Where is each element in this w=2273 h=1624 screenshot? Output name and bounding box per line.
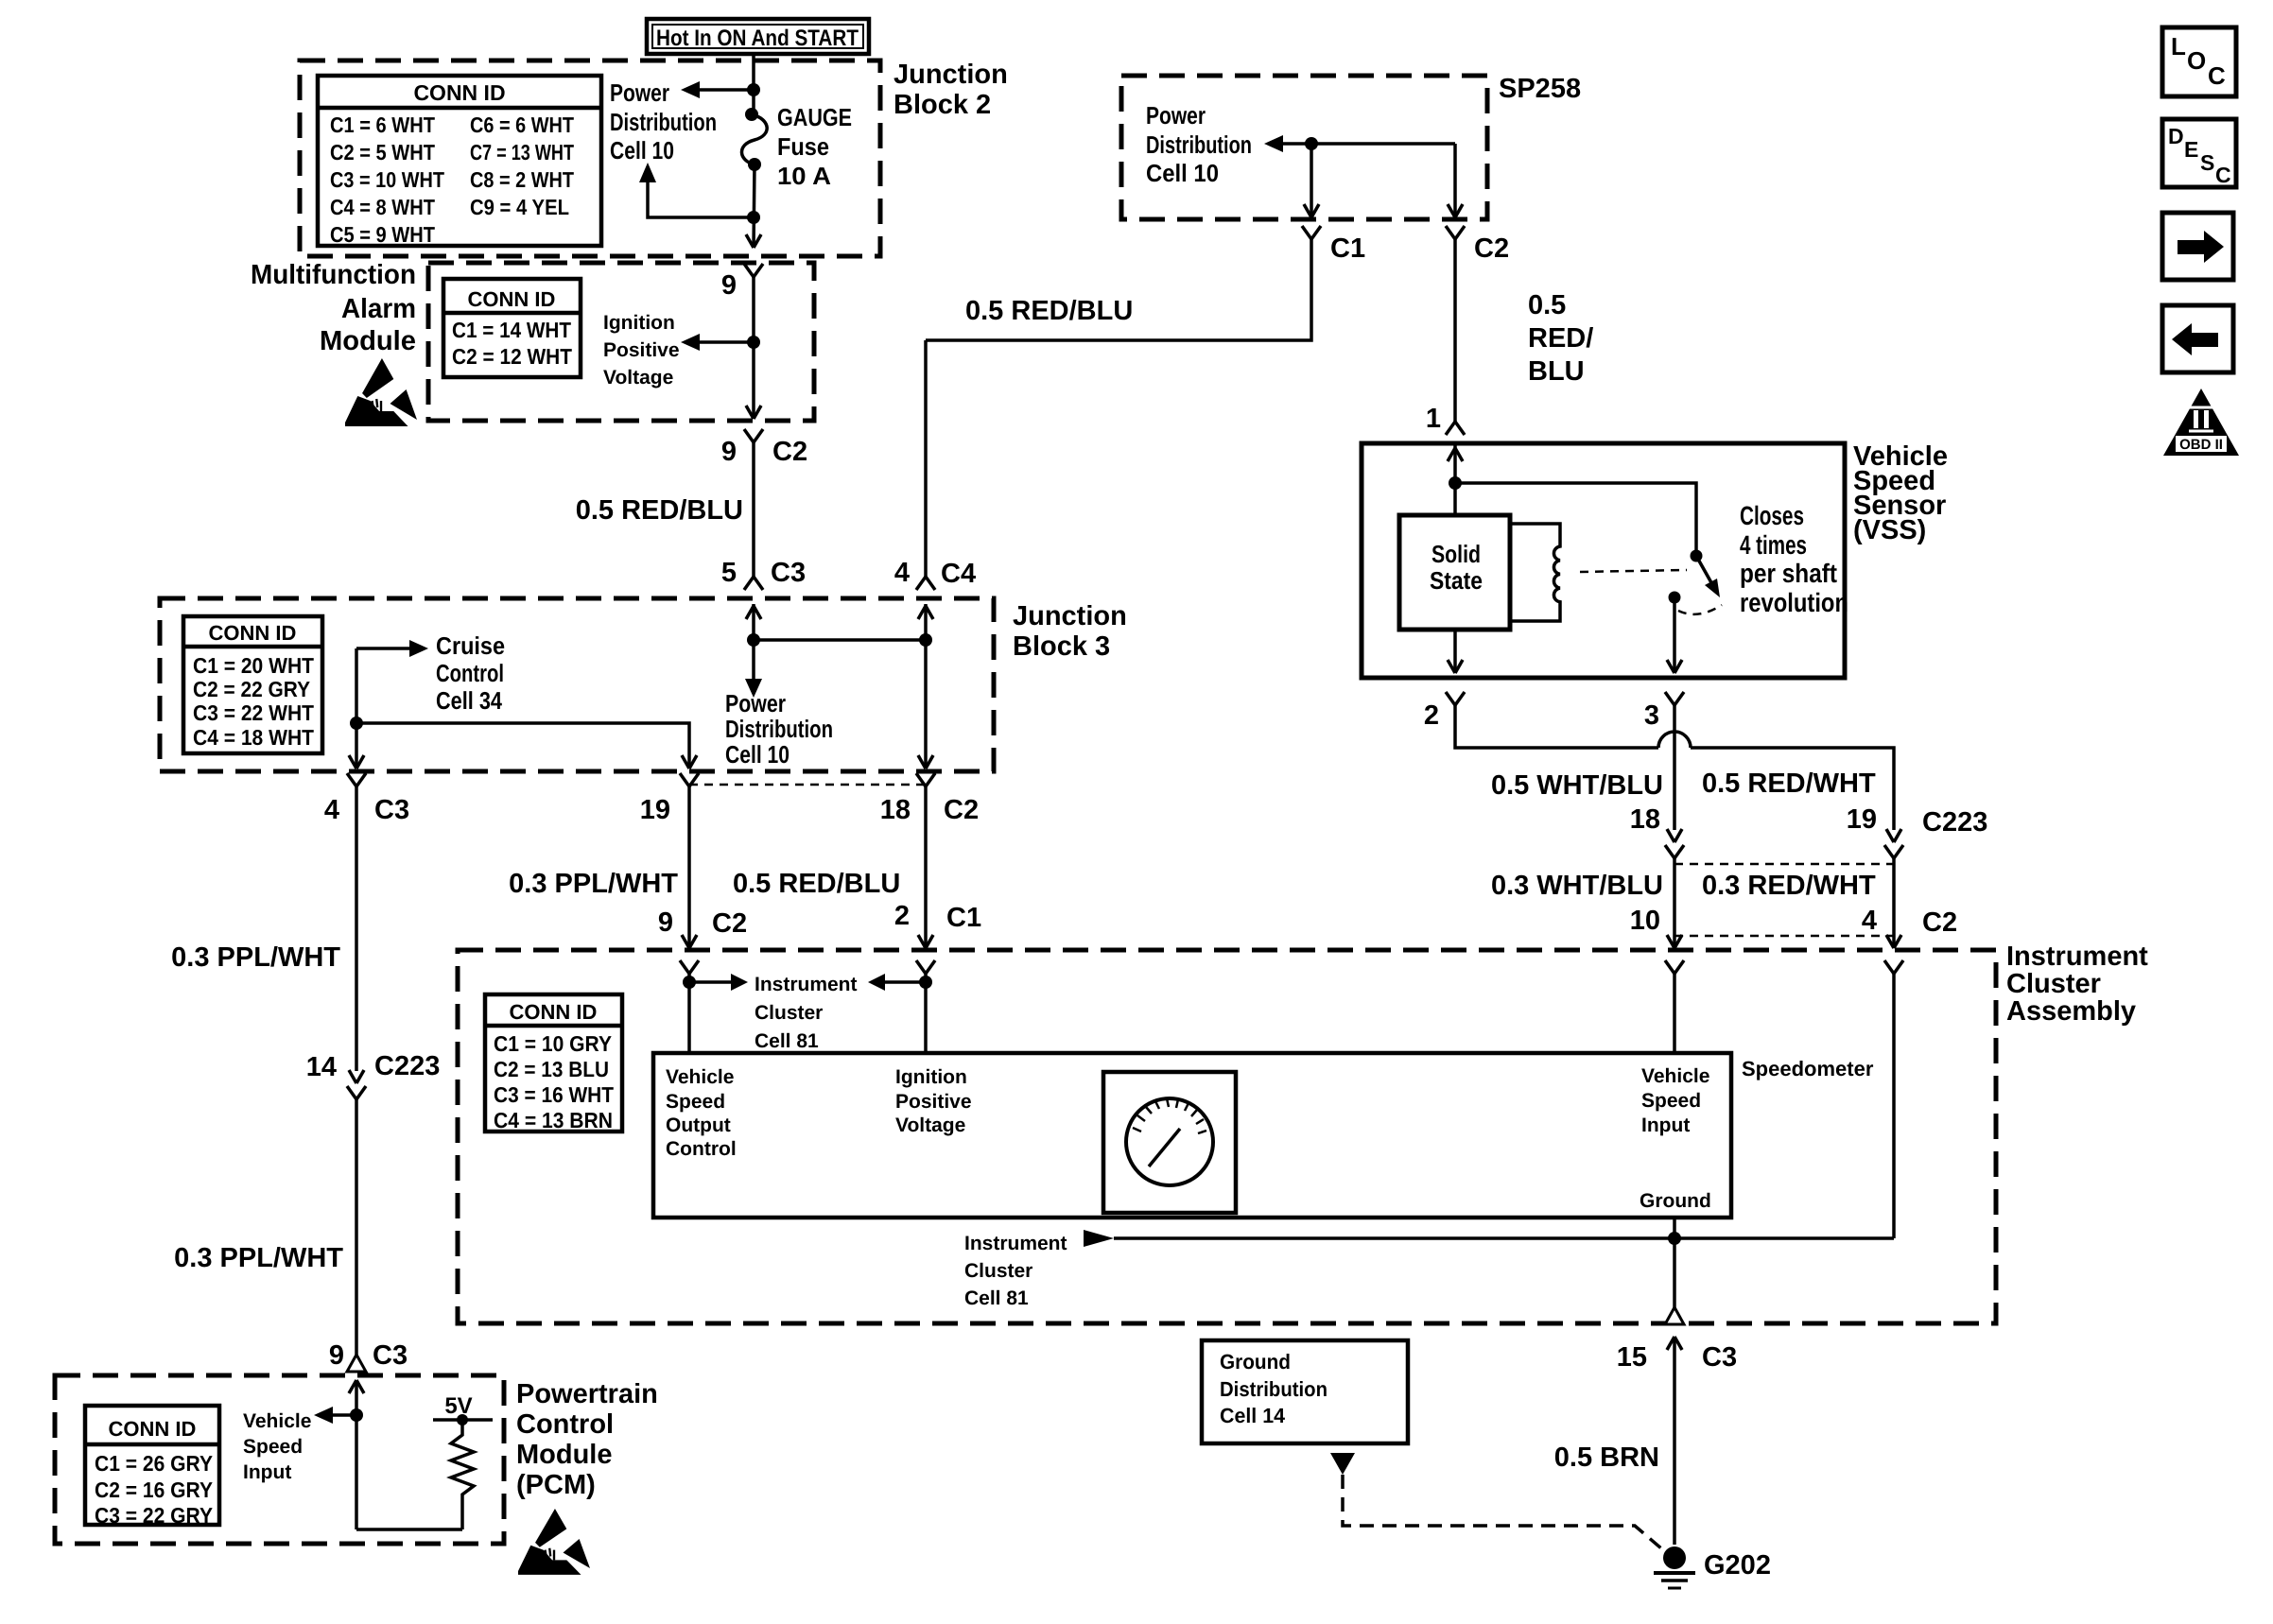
text closes 4 times per shaft revolution [1740, 501, 1848, 617]
svg-text:C223: C223 [374, 1051, 440, 1081]
ground distribution arrow [1330, 1453, 1355, 1475]
wire 19 down to IC pin 9 C2 [658, 786, 747, 948]
svg-text:Module: Module [320, 326, 416, 356]
svg-text:Instrument: Instrument [755, 974, 858, 995]
svg-text:C1 = 6 WHT: C1 = 6 WHT [330, 112, 435, 137]
svg-text:S: S [2200, 150, 2214, 175]
wire VSS pin1 internal [1448, 445, 1463, 515]
wire C1 to JB3 pin 4 C4 [926, 239, 1311, 340]
svg-text:Assembly: Assembly [2006, 996, 2136, 1027]
svg-text:0.5 RED/BLU: 0.5 RED/BLU [576, 495, 743, 526]
cell 10 feed up arrow (JB2) [639, 163, 760, 224]
solid state box [1399, 515, 1510, 630]
svg-text:0.5 BRN: 0.5 BRN [1554, 1443, 1659, 1473]
SP258 label [1499, 74, 1581, 104]
svg-text:C2: C2 [944, 795, 979, 825]
5V supply (PCM) [433, 1393, 493, 1425]
junction block 3 label [1013, 601, 1127, 662]
CONN ID table (Junction Block 3) [183, 616, 322, 753]
wire JB3 main bus [745, 604, 932, 698]
svg-text:Input: Input [243, 1461, 291, 1483]
svg-text:Cell 10: Cell 10 [1146, 159, 1219, 187]
wire label 0.3 PPL/WHT (left lower) [174, 1243, 343, 1273]
svg-text:Ground: Ground [1220, 1350, 1291, 1373]
connector 4 C3 below JB3 [324, 773, 409, 825]
instrument cluster cell 81 text (lower) [964, 1233, 1067, 1309]
wire JB3 internal cross to pin19 [356, 723, 697, 769]
forward arrow icon [2162, 213, 2233, 280]
svg-text:4: 4 [324, 795, 339, 825]
svg-text:C8 = 2 WHT: C8 = 2 WHT [470, 167, 574, 192]
wire fuse to JB2 exit [746, 164, 761, 248]
svg-text:C1: C1 [946, 903, 981, 933]
OBD II icon [2163, 389, 2239, 456]
JB3 connector gang dashed link [689, 784, 926, 786]
svg-text:C1 = 14 WHT: C1 = 14 WHT [452, 318, 571, 342]
svg-text:Power: Power [1146, 101, 1206, 130]
svg-text:C2: C2 [1922, 907, 1957, 938]
svg-text:CONN ID: CONN ID [209, 621, 297, 645]
svg-text:0.3 PPL/WHT: 0.3 PPL/WHT [174, 1243, 343, 1273]
svg-text:Junction: Junction [894, 60, 1008, 90]
wire label 0.3 RED/WHT [1702, 871, 1876, 901]
svg-text:Cruise: Cruise [436, 631, 505, 660]
ground G202 [1654, 1546, 1771, 1588]
wire label 0.3 WHT/BLU [1491, 871, 1663, 901]
svg-text:O: O [2187, 46, 2206, 75]
svg-text:Cell 81: Cell 81 [964, 1287, 1029, 1309]
svg-text:1: 1 [1426, 404, 1441, 434]
connector 15 C3 at IC bottom [1617, 1307, 1737, 1545]
svg-text:Speed: Speed [1641, 1090, 1701, 1112]
wire PCM internal [356, 1380, 462, 1529]
connector 9 C3 into PCM [329, 1340, 408, 1393]
svg-text:Control: Control [436, 659, 504, 687]
svg-text:C2: C2 [712, 908, 747, 939]
powertrain control module label [516, 1379, 658, 1500]
junction block 2 dashed box [300, 60, 880, 256]
back arrow icon [2162, 305, 2233, 372]
svg-text:Vehicle: Vehicle [243, 1410, 311, 1432]
CONN ID table (Multifunction Alarm Module) [443, 279, 581, 377]
svg-text:Cluster: Cluster [964, 1260, 1032, 1282]
svg-text:CONN ID: CONN ID [510, 1000, 598, 1024]
svg-text:9: 9 [658, 907, 673, 938]
coil (VSS) [1510, 524, 1560, 621]
svg-text:2: 2 [894, 901, 910, 931]
ground pin text [1640, 1190, 1711, 1212]
svg-text:0.3 PPL/WHT: 0.3 PPL/WHT [509, 869, 678, 899]
svg-text:BLU: BLU [1528, 356, 1585, 387]
wire label 0.3 PPL/WHT (19 to 9) [509, 869, 678, 899]
svg-text:Input: Input [1641, 1114, 1690, 1136]
wire 4/C2 into ground bus [1892, 974, 1896, 1238]
svg-text:10 A: 10 A [777, 162, 831, 190]
svg-text:Cluster: Cluster [2006, 969, 2101, 999]
svg-text:Solid: Solid [1431, 540, 1481, 568]
wire JB3 internal left [349, 648, 364, 769]
wire SP258 C1 drop [1304, 144, 1319, 217]
LOC icon [2162, 27, 2236, 96]
svg-text:SP258: SP258 [1499, 74, 1581, 104]
vehicle speed input pin text [1641, 1065, 1709, 1136]
svg-text:Positive: Positive [895, 1091, 972, 1113]
svg-text:Cell 10: Cell 10 [725, 740, 789, 769]
svg-text:Ignition: Ignition [895, 1066, 967, 1088]
svg-text:10: 10 [1630, 906, 1660, 936]
C223 gang dashed link [1674, 863, 1894, 866]
connector 9 C2 below MAM [721, 429, 807, 467]
svg-text:C2 = 16 GRY: C2 = 16 GRY [95, 1477, 213, 1502]
CONN ID table (Junction Block 2) [318, 76, 601, 247]
wire pin2 to C223 pin19 with hop [1455, 705, 1894, 830]
svg-text:E: E [2184, 137, 2198, 162]
dashed ground reference path [1343, 1475, 1661, 1548]
svg-text:(PCM): (PCM) [516, 1470, 596, 1500]
junction block 3 dashed box [160, 598, 994, 771]
svg-text:0.3 PPL/WHT: 0.3 PPL/WHT [171, 942, 340, 973]
svg-text:C223: C223 [1922, 807, 1987, 838]
Vehicle Speed Sensor label [1853, 441, 1948, 545]
svg-text:14: 14 [306, 1052, 337, 1082]
C2 gang dashed link [1674, 935, 1894, 938]
svg-text:C2 = 22 GRY: C2 = 22 GRY [193, 677, 310, 701]
CONN ID table (Instrument Cluster) [485, 994, 622, 1132]
power distribution text (JB3) [725, 689, 833, 769]
Multifunction Alarm Module label [251, 260, 416, 356]
svg-text:Speed: Speed [243, 1436, 303, 1458]
svg-text:C3 = 10 WHT: C3 = 10 WHT [330, 167, 444, 192]
svg-text:CONN ID: CONN ID [109, 1417, 197, 1441]
svg-text:per shaft: per shaft [1740, 559, 1837, 588]
svg-text:Instrument: Instrument [2006, 942, 2148, 972]
instrument cluster inner box [653, 1053, 1731, 1218]
ESD symbol (Multifunction Alarm Module) [345, 358, 417, 426]
svg-text:Positive: Positive [603, 339, 680, 361]
svg-text:G202: G202 [1704, 1550, 1771, 1581]
svg-text:C2 = 13 BLU: C2 = 13 BLU [494, 1057, 609, 1081]
ignition positive voltage tap (MAM) [603, 312, 760, 389]
ignition positive voltage pin text [895, 1066, 972, 1136]
wire label 0.5 BRN [1554, 1443, 1659, 1473]
svg-text:0.3 WHT/BLU: 0.3 WHT/BLU [1491, 871, 1663, 901]
svg-text:C3: C3 [1702, 1342, 1737, 1373]
svg-text:C4 = 18 WHT: C4 = 18 WHT [193, 725, 314, 750]
powertrain control module dashed box [55, 1375, 504, 1544]
vehicle speed output control pin text [666, 1066, 737, 1160]
svg-text:4 times: 4 times [1740, 530, 1807, 560]
junction block 2 label [894, 60, 1008, 120]
svg-text:Module: Module [516, 1440, 613, 1470]
svg-text:Junction: Junction [1013, 601, 1127, 631]
connector 9 into Multifunction Alarm Module [721, 264, 763, 301]
svg-text:0.5 WHT/BLU: 0.5 WHT/BLU [1491, 770, 1663, 801]
svg-text:C3 = 22 WHT: C3 = 22 WHT [193, 700, 314, 725]
svg-text:D: D [2168, 124, 2184, 148]
svg-text:Voltage: Voltage [895, 1114, 965, 1136]
svg-text:18: 18 [1630, 804, 1660, 835]
svg-text:0.5: 0.5 [1528, 290, 1566, 320]
svg-text:15: 15 [1617, 1342, 1647, 1373]
power distribution tap (SP258) [1146, 101, 1455, 187]
svg-text:Vehicle: Vehicle [666, 1066, 734, 1088]
svg-text:Instrument: Instrument [964, 1233, 1067, 1254]
svg-text:CONN ID: CONN ID [468, 287, 556, 311]
connector C1 (SP258) [1302, 226, 1365, 264]
svg-text:Distribution: Distribution [610, 108, 717, 136]
svg-text:C6 = 6 WHT: C6 = 6 WHT [470, 112, 574, 137]
svg-text:Vehicle: Vehicle [1641, 1065, 1709, 1087]
svg-text:State: State [1430, 566, 1483, 595]
svg-text:9: 9 [721, 437, 737, 467]
svg-text:Multifunction: Multifunction [251, 260, 416, 290]
svg-text:0.3 RED/WHT: 0.3 RED/WHT [1702, 871, 1876, 901]
speedometer gauge icon [1103, 1072, 1236, 1213]
wire 14/C223 down to PCM [355, 1099, 358, 1355]
svg-text:C3: C3 [373, 1340, 408, 1371]
svg-text:19: 19 [640, 795, 670, 825]
ground distribution cell 14 box [1202, 1340, 1408, 1443]
svg-text:Block 3: Block 3 [1013, 631, 1110, 662]
svg-text:19: 19 [1847, 804, 1877, 835]
connector 4 C4 into Junction Block 3 [894, 340, 976, 590]
switch (VSS) [1669, 550, 1723, 614]
Multifunction Alarm Module dashed box [428, 263, 814, 421]
svg-text:Power: Power [725, 689, 786, 717]
svg-text:Output: Output [666, 1114, 731, 1136]
svg-text:Block 2: Block 2 [894, 90, 991, 120]
connector C2 (SP258) [1446, 226, 1509, 264]
svg-text:C1: C1 [1330, 233, 1365, 264]
svg-text:2: 2 [1424, 700, 1439, 731]
connector 19 below JB3 [640, 773, 699, 825]
svg-text:C2 = 5 WHT: C2 = 5 WHT [330, 140, 435, 164]
svg-text:C3 = 22 GRY: C3 = 22 GRY [95, 1503, 213, 1528]
DESC icon [2162, 119, 2236, 187]
svg-text:Power: Power [610, 78, 669, 107]
wire label 0.5 RED/ BLU (C2 to VSS) [1528, 290, 1593, 387]
wire 18 down to IC pin 2 C1 [894, 786, 981, 948]
svg-text:Closes: Closes [1740, 501, 1804, 530]
svg-text:Voltage: Voltage [603, 367, 673, 389]
svg-text:Ignition: Ignition [603, 312, 675, 334]
svg-text:OBD II: OBD II [2179, 437, 2223, 453]
instrument cluster cell 81 tap (upper) [683, 974, 932, 1053]
svg-text:C5 = 9 WHT: C5 = 9 WHT [330, 222, 435, 247]
connector 18 C2 below JB3 [880, 773, 979, 825]
svg-text:9: 9 [721, 270, 737, 301]
svg-text:Powertrain: Powertrain [516, 1379, 658, 1409]
svg-text:Cell 34: Cell 34 [436, 686, 502, 715]
ESD symbol (PCM) [518, 1509, 590, 1575]
wire 9/C2 down to 5/C3 [744, 442, 763, 590]
wire 10 into speedometer [1673, 974, 1676, 1053]
svg-text:RED/: RED/ [1528, 323, 1593, 354]
svg-text:Speed: Speed [666, 1091, 725, 1113]
vehicle speed input tap (PCM) [243, 1407, 363, 1483]
wire C2 to VSS pin 1 [1426, 239, 1465, 435]
svg-text:Speedometer: Speedometer [1742, 1057, 1874, 1080]
connector 14 C223 (left wire) [306, 1051, 441, 1099]
svg-text:Control: Control [516, 1409, 614, 1440]
svg-text:C2 = 12 WHT: C2 = 12 WHT [452, 344, 572, 369]
connector forks at IC top [680, 960, 1903, 974]
instrument cluster assembly label [2006, 942, 2148, 1027]
svg-text:Ground: Ground [1640, 1190, 1711, 1212]
dashed coupling link [1580, 570, 1687, 572]
connector pin 2 (VSS) [1424, 692, 1465, 731]
svg-text:Distribution: Distribution [1146, 130, 1252, 159]
svg-text:Cluster: Cluster [755, 1002, 823, 1024]
svg-text:C4: C4 [941, 559, 976, 589]
svg-text:Alarm: Alarm [341, 294, 416, 324]
svg-text:3: 3 [1644, 700, 1659, 731]
svg-text:Distribution: Distribution [1220, 1377, 1327, 1401]
wire pin3 down to C223 pin18 [1673, 705, 1676, 830]
wire VSS pin3 internal [1667, 603, 1682, 673]
svg-text:C3 = 16 WHT: C3 = 16 WHT [494, 1082, 614, 1107]
svg-text:C1 = 20 WHT: C1 = 20 WHT [193, 653, 314, 678]
connector 5 C3 into Junction Block 3 [721, 558, 806, 588]
svg-text:C7 = 13 WHT: C7 = 13 WHT [470, 140, 574, 164]
svg-text:C3: C3 [771, 558, 806, 588]
CONN ID table (PCM) [85, 1406, 219, 1528]
svg-text:C2: C2 [772, 437, 807, 467]
svg-text:4: 4 [894, 558, 910, 588]
svg-text:C2: C2 [1474, 233, 1509, 264]
svg-text:18: 18 [880, 795, 911, 825]
svg-text:C: C [2215, 163, 2231, 187]
svg-text:C1 = 26 GRY: C1 = 26 GRY [95, 1451, 213, 1476]
connector C223 pin 18 [1630, 804, 1684, 858]
wire label 0.5 WHT/BLU [1491, 770, 1663, 801]
svg-text:Cell 14: Cell 14 [1220, 1404, 1286, 1427]
svg-text:GAUGE: GAUGE [777, 103, 852, 131]
svg-text:revolution: revolution [1740, 588, 1848, 617]
wire C223 19 to IC pin 4 C2 [1862, 858, 1957, 948]
Vehicle Speed Sensor box [1362, 443, 1845, 678]
wire label 0.3 PPL/WHT (left upper) [171, 942, 340, 973]
svg-text:L: L [2171, 32, 2186, 60]
resistor (PCM) [451, 1420, 474, 1529]
svg-text:C4 = 8 WHT: C4 = 8 WHT [330, 195, 435, 219]
speedometer label [1742, 1057, 1874, 1080]
svg-text:Control: Control [666, 1138, 737, 1160]
svg-text:C: C [2208, 61, 2226, 90]
svg-text:0.5 RED/BLU: 0.5 RED/BLU [965, 296, 1133, 326]
wire 4/C3 left leg down [349, 786, 364, 1083]
wire C223 18 to IC pin 10 [1630, 858, 1682, 948]
wire to switch pivot [1455, 483, 1696, 551]
wire hot feed into JB2 [747, 54, 760, 114]
wire label 0.5 RED/BLU (horizontal run) [965, 296, 1133, 326]
svg-text:(VSS): (VSS) [1853, 515, 1926, 545]
svg-text:5V: 5V [444, 1393, 472, 1419]
fuse GAUGE 10 A [741, 103, 852, 190]
ground bus inside IC [1084, 1218, 1894, 1323]
svg-text:C3: C3 [374, 795, 409, 825]
wire through MAM [746, 277, 761, 419]
svg-text:C9 = 4 YEL: C9 = 4 YEL [470, 195, 569, 219]
svg-text:Hot In ON And START: Hot In ON And START [656, 26, 859, 51]
svg-text:C1 = 10 GRY: C1 = 10 GRY [494, 1031, 612, 1056]
svg-text:Fuse: Fuse [777, 132, 829, 161]
connector pin 3 (VSS) [1644, 692, 1684, 731]
SP258 dashed box [1121, 76, 1487, 219]
svg-text:0.5 RED/BLU: 0.5 RED/BLU [733, 869, 900, 899]
wire VSS pin2 internal [1448, 630, 1463, 673]
connector C223 pin 19 [1847, 804, 1988, 858]
instrument cluster assembly dashed box [458, 950, 1996, 1323]
svg-text:Distribution: Distribution [725, 715, 833, 743]
cruise control tap arrow (JB3) [356, 631, 505, 715]
svg-text:0.5 RED/WHT: 0.5 RED/WHT [1702, 769, 1876, 799]
power distribution tap arrow (JB2) [610, 78, 754, 164]
svg-text:5: 5 [721, 558, 737, 588]
wire JB3 right leg pin18 [918, 604, 933, 769]
svg-text:Cell 10: Cell 10 [610, 136, 674, 164]
wire SP258 C2 drop [1448, 144, 1463, 217]
svg-text:Cell 81: Cell 81 [755, 1030, 819, 1052]
power source label Hot In ON And START [647, 19, 869, 54]
svg-text:CONN ID: CONN ID [413, 80, 505, 105]
wire label 0.5 RED/BLU (18 to 2) [733, 869, 900, 899]
wire label 0.5 RED/BLU (MAM to JB3) [576, 495, 743, 526]
svg-text:C4 = 13 BRN: C4 = 13 BRN [494, 1108, 613, 1132]
svg-text:9: 9 [329, 1340, 344, 1371]
svg-text:4: 4 [1862, 906, 1877, 936]
wire label 0.5 RED/WHT [1702, 769, 1876, 799]
